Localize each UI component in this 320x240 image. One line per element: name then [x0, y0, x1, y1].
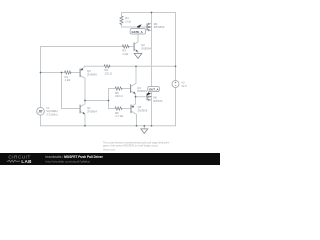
svg-text:IRF530: IRF530 [153, 99, 163, 103]
svg-text:2N3904: 2N3904 [141, 47, 151, 51]
svg-text:220 Ω: 220 Ω [115, 94, 123, 98]
svg-text:http://circuitlab.com/c/qcsk7g: http://circuitlab.com/c/qcsk7g4jkkyt [46, 159, 91, 163]
svg-text:2N3906: 2N3906 [87, 72, 97, 76]
svg-text:2N3904: 2N3904 [137, 89, 147, 93]
svg-text:gates of the power MOSFETs in: gates of the power MOSFETs in a half bri… [103, 144, 158, 147]
svg-text:2N3904: 2N3904 [87, 110, 97, 114]
svg-text:12 V: 12 V [181, 84, 187, 88]
svg-text:3.3 500m): 3.3 500m) [46, 113, 57, 116]
svg-text:1 kΩ: 1 kΩ [65, 78, 71, 82]
svg-text:Show more: Show more [103, 148, 116, 151]
svg-text:LAB: LAB [21, 159, 32, 164]
svg-text:2N3906: 2N3906 [138, 108, 148, 112]
svg-text:1 kΩ: 1 kΩ [122, 52, 128, 56]
svg-text:4.7 kΩ: 4.7 kΩ [115, 114, 123, 118]
svg-text:220 Ω: 220 Ω [105, 72, 113, 76]
svg-text:GATE_A: GATE_A [132, 30, 143, 34]
svg-text:OUT_A: OUT_A [149, 87, 158, 91]
svg-text:1 kΩ: 1 kΩ [125, 20, 131, 24]
svg-text:IRF9530: IRF9530 [154, 25, 165, 29]
